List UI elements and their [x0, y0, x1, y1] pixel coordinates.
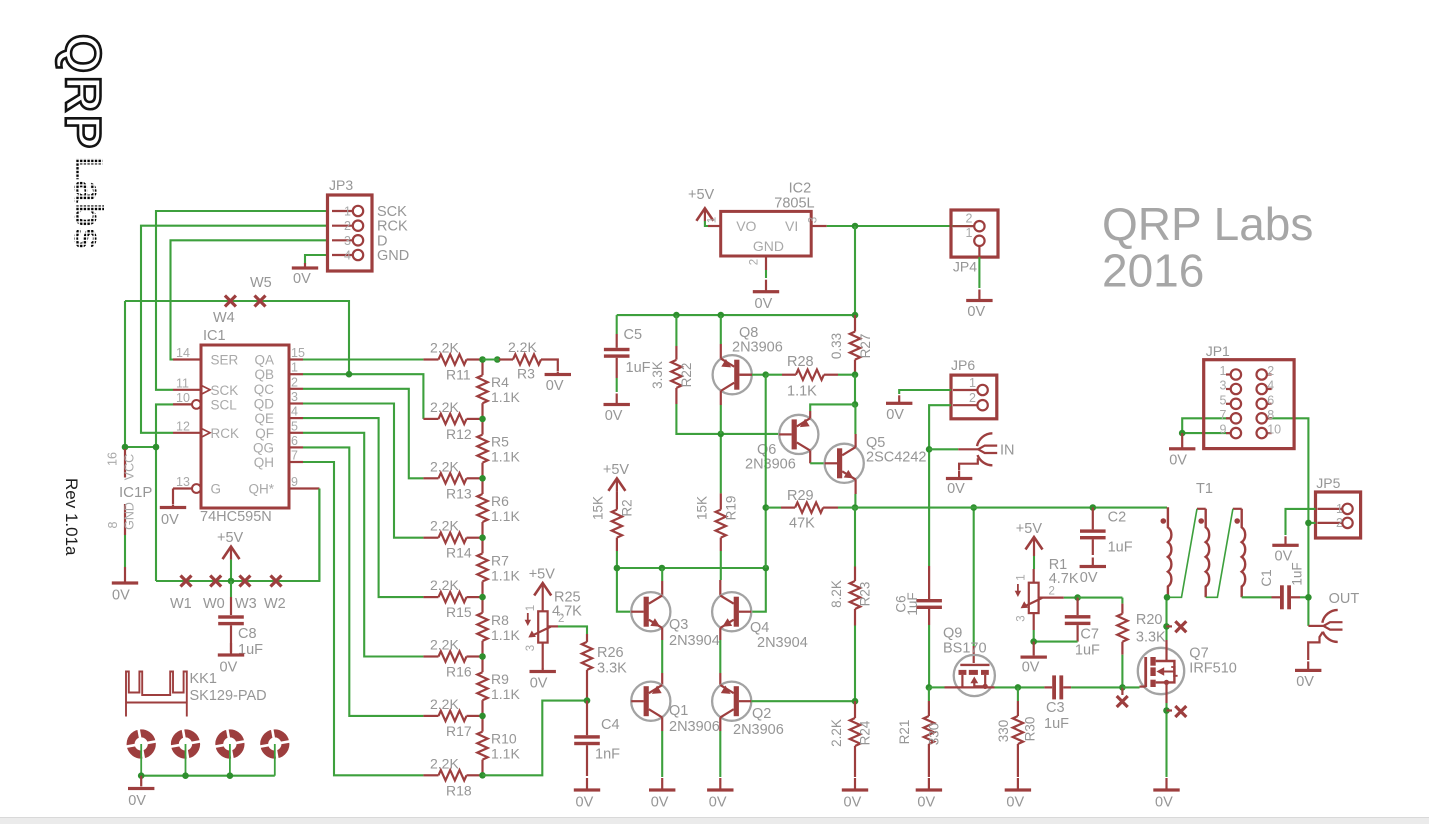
svg-text:R21: R21 [897, 720, 912, 745]
wire Q8 base to R28 [739, 374, 752, 376]
resistor R28 1.1K [766, 374, 782, 376]
svg-text:1: 1 [969, 376, 976, 390]
junction ladder node [479, 653, 486, 660]
svg-text:2.2K: 2.2K [430, 458, 459, 474]
svg-text:JP1: JP1 [1206, 343, 1230, 359]
junction VI rail [852, 223, 859, 230]
svg-text:2N3906: 2N3906 [732, 340, 783, 356]
svg-text:0V: 0V [755, 296, 773, 312]
svg-text:3: 3 [808, 217, 820, 223]
svg-text:W2: W2 [264, 596, 286, 612]
svg-text:Rev 1.01a: Rev 1.01a [62, 478, 81, 556]
svg-text:R2: R2 [620, 499, 635, 516]
junction base rail right [763, 565, 770, 572]
svg-text:0V: 0V [161, 512, 179, 528]
svg-text:R6: R6 [491, 493, 509, 509]
wire R25 wiper to R26 [548, 625, 558, 627]
svg-text:3.3K: 3.3K [597, 661, 627, 677]
resistor R30 330 [1017, 687, 1019, 701]
wire Q2 collector to ground [719, 717, 721, 731]
svg-text:14: 14 [176, 346, 190, 360]
svg-text:330: 330 [996, 720, 1011, 743]
junction W row +5V [228, 578, 235, 585]
svg-text:R20: R20 [1136, 612, 1163, 628]
svg-text:2N3904: 2N3904 [757, 635, 808, 651]
wire R19 to Q4 collector [720, 551, 722, 580]
wire JP3 pin2 RCK to IC1 pin12 [141, 226, 328, 433]
svg-text:1.1K: 1.1K [491, 746, 520, 762]
junction Q6 emitter node [852, 401, 859, 408]
svg-text:1: 1 [1220, 364, 1227, 378]
resistor R5 1.1K [481, 419, 483, 435]
power +5V R25 [534, 583, 551, 596]
junction C1 out [1305, 594, 1312, 601]
svg-text:R15: R15 [446, 604, 472, 620]
jumper W2 [271, 576, 282, 587]
ground Q2 [719, 778, 721, 789]
svg-text:1.1K: 1.1K [491, 508, 520, 524]
ground JP5 pin1 [1284, 536, 1286, 544]
svg-text:SCL: SCL [211, 397, 238, 412]
svg-text:G: G [211, 482, 222, 497]
jumper W4 [225, 296, 236, 307]
transformer T1 winding 1 [1168, 507, 1172, 597]
wire Q5 emitter [854, 480, 856, 495]
svg-text:+5V: +5V [217, 530, 244, 546]
svg-text:+5V: +5V [603, 462, 630, 478]
wire JP1 pin8 to JP5 net [1267, 418, 1309, 626]
resistor R26 3.3K [586, 634, 588, 642]
pad mounting hole [123, 726, 159, 762]
wire pad bus [140, 744, 142, 776]
svg-text:9: 9 [1220, 423, 1227, 437]
svg-text:2: 2 [966, 212, 973, 226]
jumper Q7 source [1167, 709, 1173, 711]
wire W row [156, 489, 319, 582]
svg-text:0V: 0V [1080, 570, 1098, 586]
wire Q9 source row [929, 686, 945, 688]
svg-text:16: 16 [106, 452, 120, 466]
wire JP6 pin2 down [929, 405, 951, 566]
transistor Q7 IRF510 [1138, 648, 1184, 694]
svg-text:Q3: Q3 [669, 617, 688, 633]
svg-text:+5V: +5V [1016, 521, 1043, 537]
wire JP1 pin7 pin9 ground [1182, 418, 1231, 433]
transistor Q3 2N3904 [631, 592, 670, 631]
wire QE to ladder [303, 418, 423, 597]
svg-text:0V: 0V [947, 481, 965, 497]
svg-text:2: 2 [1049, 586, 1055, 598]
svg-text:4.7K: 4.7K [1049, 571, 1079, 587]
svg-text:47K: 47K [789, 516, 815, 532]
ground R1 [1033, 642, 1035, 655]
wire OUT connector [1308, 625, 1323, 627]
ic IC1 pin 11 SCK [173, 389, 201, 391]
junction IN node [926, 446, 933, 453]
transistor Q6 2N3906 [779, 415, 818, 454]
svg-text:2N3906: 2N3906 [745, 457, 796, 473]
resistor R11 2.2K [423, 358, 438, 360]
svg-text:C7: C7 [1080, 627, 1099, 643]
svg-text:8: 8 [106, 521, 120, 528]
svg-text:QG: QG [253, 440, 274, 455]
svg-text:11: 11 [176, 376, 189, 390]
svg-text:3.3K: 3.3K [1136, 630, 1166, 646]
capacitor C8 [230, 581, 232, 597]
wire R27 node down [854, 375, 856, 405]
junction Q7 drain jumper [1163, 623, 1170, 630]
svg-text:2.2K: 2.2K [430, 637, 459, 653]
svg-text:R22: R22 [679, 363, 694, 388]
junction ladder node [479, 356, 486, 363]
resistor R12 2.2K [423, 418, 438, 420]
capacitor C1 1uF [1272, 596, 1281, 598]
svg-text:0V: 0V [844, 795, 862, 811]
junction R29 left [763, 504, 770, 511]
svg-text:R19: R19 [724, 496, 739, 521]
junction R30 C3 [1015, 684, 1022, 691]
svg-text:0V: 0V [530, 676, 548, 692]
svg-text:R29: R29 [787, 488, 814, 504]
wire T1 link 1-2 [1168, 509, 1197, 598]
resistor R22 3.3K [675, 315, 677, 346]
ic IC1 pin 13 G [173, 487, 192, 489]
svg-text:0V: 0V [293, 271, 311, 287]
svg-text:0V: 0V [886, 407, 904, 423]
svg-text:R9: R9 [491, 671, 509, 687]
transistor Q4 2N3904 (mirrored) [712, 592, 751, 631]
ic IC1 pin 5 QF [289, 432, 303, 434]
ground pads [140, 776, 142, 786]
svg-text:0V: 0V [651, 795, 669, 811]
svg-text:2: 2 [749, 259, 761, 265]
wire Q7 source [1165, 694, 1167, 703]
svg-text:1.1K: 1.1K [787, 384, 817, 400]
svg-text:VCC: VCC [123, 454, 137, 480]
svg-text:0V: 0V [220, 660, 238, 676]
ic IC1 74HC595N box [201, 345, 289, 508]
resistor R20 3.3K [1121, 598, 1123, 604]
wire R22 to Q6 base [676, 404, 779, 434]
ground JP6 pin1 [898, 395, 900, 402]
svg-text:C4: C4 [601, 717, 620, 733]
ground Q1 [661, 778, 663, 789]
junction ladder node [479, 416, 486, 423]
svg-text:SCK: SCK [377, 204, 407, 220]
ground R24 [854, 778, 856, 789]
svg-text:R16: R16 [446, 664, 472, 680]
connector JP1 [1204, 360, 1294, 449]
capacitor C7 1uF [1076, 598, 1078, 616]
svg-text:C1: C1 [1259, 569, 1274, 586]
wire JP5 pin1 ground [1286, 509, 1316, 535]
wire Q8 emitter to rail [720, 344, 722, 359]
junction R1 pin3 C7 [1030, 638, 1037, 645]
ground JP4 [978, 290, 980, 300]
connector OUT [1324, 622, 1343, 626]
wire QB to ladder [303, 374, 423, 419]
svg-text:JP4: JP4 [953, 259, 977, 275]
junction QB W-net [346, 371, 353, 378]
svg-text:C3: C3 [1046, 700, 1065, 716]
junction rail R22 [673, 312, 680, 319]
pad mounting hole [212, 726, 248, 762]
junction rail R27 [852, 312, 859, 319]
svg-text:1uF: 1uF [1108, 540, 1133, 556]
wire Q3 base drop [617, 568, 631, 612]
connector JP5 [1316, 492, 1361, 538]
junction ladder node [479, 594, 486, 601]
svg-text:QRP Labs: QRP Labs [1102, 198, 1313, 250]
jumper W1 [181, 576, 192, 587]
junction T1 bottom Q7 drain [1164, 594, 1171, 601]
wire R2 to base rail [616, 551, 618, 568]
ground R3 [557, 372, 559, 374]
junction R27 R28 node [852, 371, 859, 378]
svg-text:R10: R10 [491, 731, 517, 747]
wire QA to R11 [303, 358, 423, 360]
svg-text:0V: 0V [1296, 674, 1314, 690]
svg-text:1.1K: 1.1K [491, 449, 520, 465]
svg-text:QE: QE [254, 411, 274, 426]
svg-text:IC1P: IC1P [119, 484, 152, 501]
svg-text:0V: 0V [917, 795, 935, 811]
wire QH to ladder [303, 462, 423, 775]
resistor R2 15K [616, 491, 618, 509]
jumper W0 [210, 576, 221, 587]
ground IC1P [124, 567, 126, 582]
wire QD to ladder [303, 404, 423, 538]
svg-text:12: 12 [176, 419, 190, 433]
connector IN [978, 446, 997, 450]
wire Q8 collector [720, 391, 722, 405]
ic IC1 pin 10 SCL [173, 403, 192, 405]
ground JP1 [1181, 433, 1183, 446]
svg-text:RCK: RCK [377, 219, 408, 235]
svg-text:+5V: +5V [688, 187, 715, 203]
svg-text:0V: 0V [709, 795, 727, 811]
resistor R16 2.2K [423, 655, 438, 657]
svg-text:R3: R3 [517, 366, 535, 382]
svg-text:7: 7 [1220, 408, 1227, 422]
connector JP3 [328, 195, 373, 271]
resistor R3 2.2K [499, 358, 513, 360]
wire Q3 emitter to Q1 emitter [661, 628, 663, 640]
wire DAC output to Q1 base node [483, 701, 588, 776]
ic IC1 pin 6 QG [289, 446, 303, 448]
svg-text:W5: W5 [250, 275, 272, 291]
ic IC1 pin 14 SER [173, 358, 201, 360]
connector JP4 [951, 210, 998, 257]
svg-text:2.2K: 2.2K [430, 518, 459, 534]
svg-text:QB: QB [254, 367, 274, 382]
capacitor C3 1uF [1044, 686, 1052, 688]
trimmer R25 4.7K [538, 611, 547, 642]
ic IC2 pin2 GND stub [765, 256, 767, 270]
svg-text:SER: SER [211, 353, 239, 368]
svg-text:R27: R27 [858, 334, 873, 359]
wire JP4 pin1 ground [978, 246, 980, 257]
resistor R23 8.2K [854, 567, 856, 582]
junction VCC 2 [153, 444, 160, 451]
ic IC1 pin 4 QE [289, 417, 303, 419]
svg-text:0V: 0V [605, 408, 623, 424]
ground R30 [1017, 778, 1019, 789]
svg-text:2.2K: 2.2K [430, 577, 459, 593]
svg-text:R11: R11 [446, 367, 471, 383]
svg-text:2N3904: 2N3904 [669, 633, 720, 649]
svg-text:0V: 0V [1169, 452, 1187, 468]
wire IC1P GND to ground [124, 535, 126, 567]
wire T1 winding3 to C1 [1242, 596, 1272, 598]
wire Q9 drain vertical [973, 508, 975, 646]
svg-text:W4: W4 [213, 310, 235, 326]
wire +12V rail [617, 314, 855, 316]
svg-text:QRP: QRP [55, 34, 111, 151]
wire supply drop to rail [854, 226, 856, 315]
wire R1 pin3 [1033, 613, 1035, 630]
ground IC2 [765, 280, 767, 291]
transistor Q2 2N3906 (mirrored) [712, 682, 751, 721]
ground IN tail [959, 458, 978, 470]
connector JP6 [951, 375, 997, 419]
svg-text:1: 1 [1336, 502, 1343, 516]
svg-text:0V: 0V [967, 304, 985, 320]
svg-text:2N3906: 2N3906 [669, 719, 720, 735]
wire Q4 emitter to Q2 emitter [719, 628, 721, 640]
resistor R9 1.1K [481, 657, 483, 673]
svg-text:3: 3 [1015, 615, 1027, 621]
junction C6 R21 Q9 source [926, 684, 933, 691]
svg-text:0V: 0V [1155, 795, 1173, 811]
svg-text:7: 7 [291, 449, 298, 463]
junction ladder node [479, 475, 486, 482]
svg-text:1uF: 1uF [1075, 643, 1100, 659]
svg-text:0V: 0V [112, 588, 130, 604]
svg-text:R13: R13 [446, 485, 472, 501]
svg-text:OUT: OUT [1329, 591, 1360, 607]
junction Q7 source jumper [1163, 707, 1170, 714]
svg-text:GND: GND [123, 502, 137, 530]
junction ladder node [479, 772, 486, 779]
svg-text:R30: R30 [1023, 717, 1038, 742]
ic IC1 pin 1 QB [289, 373, 303, 375]
svg-text:R4: R4 [491, 374, 509, 390]
ground Q7 [1165, 778, 1167, 789]
wire JP3 pin3 D to IC1 pin14 [171, 240, 328, 359]
svg-text:QA: QA [254, 353, 274, 368]
transformer T1 winding 2 [1206, 509, 1210, 598]
junction base rail R2 [614, 565, 621, 572]
svg-text:6: 6 [1267, 393, 1274, 407]
svg-text:330: 330 [927, 723, 942, 746]
svg-text:0V: 0V [1022, 660, 1040, 676]
svg-text:0V: 0V [1275, 548, 1293, 564]
wire Q3 collector [661, 568, 663, 581]
svg-text:74HC595N: 74HC595N [200, 509, 272, 525]
svg-text:Labs: Labs [66, 156, 110, 249]
svg-text:Q4: Q4 [750, 620, 769, 636]
svg-text:8.2K: 8.2K [829, 580, 844, 608]
jumper Q7 drain [1167, 625, 1173, 627]
svg-text:15: 15 [291, 346, 305, 360]
svg-text:R28: R28 [787, 354, 814, 370]
ground OUT tail [1308, 632, 1323, 660]
svg-text:4: 4 [1267, 379, 1274, 393]
trimmer R1 4.7K [1029, 583, 1039, 613]
wire JP3 pin4 GND [305, 255, 328, 264]
power +5V IC2 output [696, 208, 713, 221]
svg-text:IC1: IC1 [203, 328, 226, 344]
junction ladder node [479, 713, 486, 720]
ground R25 [542, 643, 544, 669]
bottom window edge [0, 818, 1429, 824]
svg-text:8: 8 [1267, 408, 1274, 422]
svg-text:5: 5 [1220, 393, 1227, 407]
resistor R24 2.2K [854, 701, 856, 718]
svg-text:1uF: 1uF [905, 592, 920, 615]
transistor Q8 2N3906 (mirrored) [713, 355, 752, 394]
svg-text:+5V: +5V [529, 567, 556, 583]
svg-text:VO: VO [736, 218, 756, 234]
wire base rail [617, 568, 766, 612]
pad mounting hole [257, 726, 293, 762]
svg-text:R7: R7 [491, 552, 509, 568]
svg-text:R23: R23 [858, 582, 873, 607]
svg-text:BS170: BS170 [943, 641, 987, 657]
resistor R4 1.1K [481, 360, 483, 376]
wire VCC vertical [125, 301, 156, 447]
svg-text:C8: C8 [238, 626, 257, 642]
ic IC1 pin 2 QC [289, 388, 303, 390]
ic IC1P power pin 8 GND [124, 504, 126, 535]
svg-text:VI: VI [785, 218, 798, 234]
svg-text:1.1K: 1.1K [491, 627, 520, 643]
power +5V at W row [223, 547, 240, 560]
svg-text:JP5: JP5 [1316, 475, 1340, 491]
pad mounting hole [168, 726, 204, 762]
svg-text:1: 1 [344, 205, 351, 219]
svg-text:10: 10 [1267, 423, 1281, 437]
svg-text:SK129-PAD: SK129-PAD [190, 688, 267, 704]
resistor R13 2.2K [423, 477, 438, 479]
junction R3 node [494, 356, 501, 363]
junction rail Q8 [718, 312, 725, 319]
svg-text:Q2: Q2 [752, 706, 771, 722]
wire JP5 pin2 [1308, 522, 1315, 524]
svg-text:QC: QC [254, 382, 275, 397]
wire Q7 drain [1165, 640, 1167, 649]
resistor R18 2.2K [423, 774, 438, 776]
svg-text:IRF510: IRF510 [1189, 661, 1237, 677]
svg-text:1.1K: 1.1K [491, 389, 520, 405]
capacitor C6 1uF [928, 566, 930, 599]
svg-text:2: 2 [291, 375, 298, 389]
svg-text:2.2K: 2.2K [430, 755, 459, 771]
svg-text:1uF: 1uF [1044, 716, 1069, 732]
junction R20 gate node [1119, 684, 1126, 691]
svg-text:2.2K: 2.2K [430, 340, 459, 356]
ground R21 [928, 778, 930, 789]
svg-text:1.1K: 1.1K [491, 686, 520, 702]
svg-text:7805L: 7805L [774, 196, 814, 212]
power +5V R2 [608, 478, 625, 491]
svg-text:D: D [377, 233, 387, 249]
ic IC1 pin 3 QD [289, 402, 303, 404]
jumper W3 [239, 576, 250, 587]
svg-text:JP3: JP3 [329, 177, 353, 193]
svg-text:4: 4 [344, 249, 351, 263]
